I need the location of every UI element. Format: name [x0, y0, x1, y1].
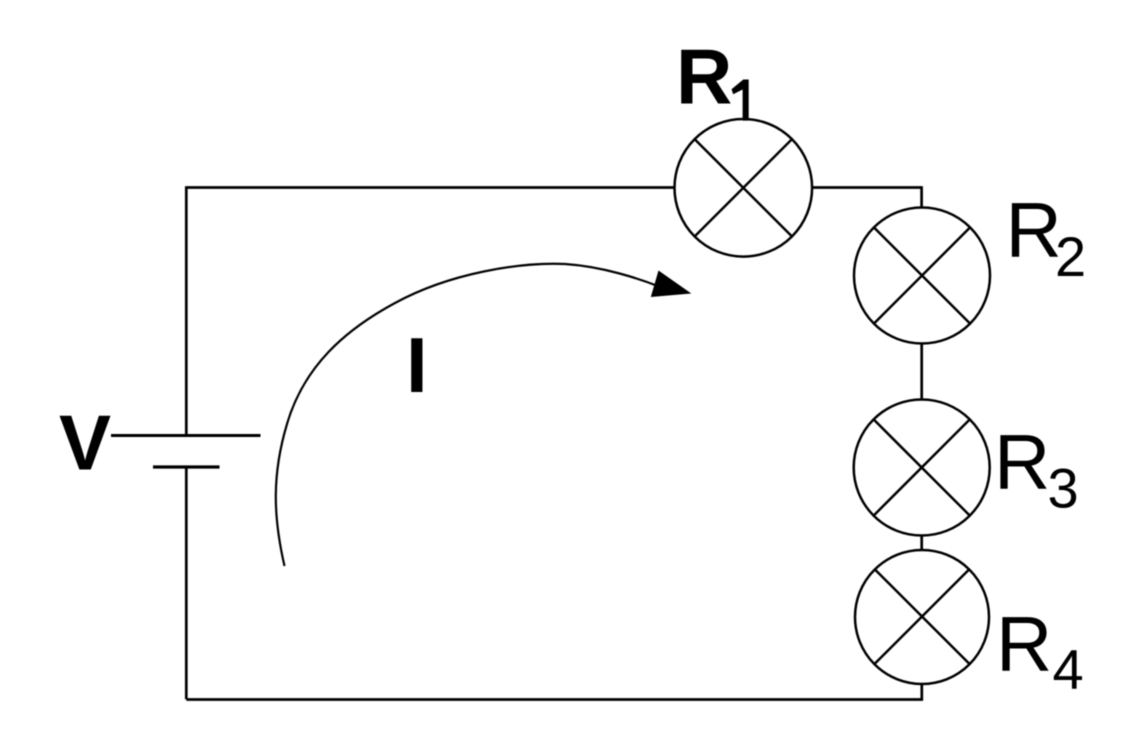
- wire: left, top corner down to battery top plate: [185, 186, 188, 437]
- svg-text:R: R: [676, 33, 732, 121]
- wire: right, corner down to lamp R2: [920, 186, 923, 208]
- lamp R1: circle with X on top wire: [675, 119, 813, 257]
- wire: right, lamp R3 to lamp R4: [920, 535, 923, 551]
- battery V: short bottom plate: [153, 465, 220, 468]
- label R1 subscript 1 (custom glyph, no serif): [732, 80, 749, 121]
- current arrow: curved shaft: [276, 264, 659, 566]
- svg-text:V: V: [59, 399, 111, 487]
- wire: top, right segment from lamp R1 to top-right corner: [813, 186, 922, 189]
- lamp R3: circle with X on right wire: [854, 400, 990, 536]
- wire: top, left segment from left corner to lamp R1: [186, 186, 674, 189]
- svg-text:R4: R4: [996, 600, 1084, 700]
- current arrow: filled head: [651, 271, 692, 298]
- battery V: long top plate: [111, 434, 261, 437]
- lamp R4: circle with X on right wire: [855, 550, 989, 684]
- lamp R2: circle with X on right wire: [854, 208, 990, 344]
- wire: left, battery bottom plate down to bottom corner: [185, 467, 188, 699]
- wire: bottom: [186, 698, 923, 701]
- svg-text:R3: R3: [994, 418, 1079, 520]
- wire: right, lamp R2 to lamp R3: [920, 343, 923, 401]
- svg-text:I: I: [406, 321, 428, 409]
- wire: right, lamp R4 to bottom-right corner: [920, 684, 923, 700]
- svg-text:R2: R2: [1006, 186, 1087, 288]
